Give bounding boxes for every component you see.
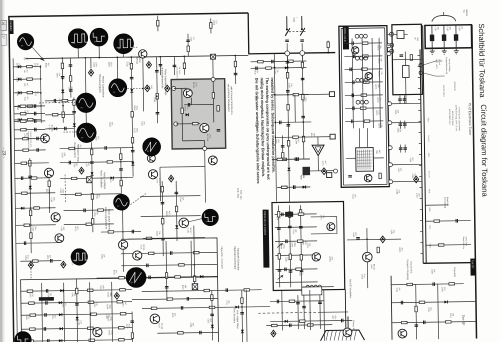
capacitor bbox=[199, 331, 201, 335]
vertical deflection module box bbox=[272, 201, 345, 290]
junction bbox=[120, 161, 122, 163]
capacitor bbox=[352, 55, 354, 59]
svg-text:30n: 30n bbox=[34, 226, 36, 229]
diode bbox=[130, 89, 133, 92]
svg-text:tuning voltage: tuning voltage bbox=[448, 59, 451, 73]
svg-text:630: 630 bbox=[23, 57, 25, 60]
svg-text:V231: V231 bbox=[195, 82, 197, 86]
junction bbox=[30, 224, 32, 226]
capacitor bbox=[400, 54, 404, 56]
capacitor bbox=[131, 149, 135, 151]
resistor bbox=[165, 273, 167, 279]
svg-text:27: 27 bbox=[1, 35, 5, 39]
resistor bbox=[296, 268, 302, 270]
wire bbox=[405, 78, 407, 104]
wire bbox=[275, 254, 317, 257]
wire bbox=[287, 56, 289, 202]
wire bbox=[101, 230, 141, 233]
junction bbox=[301, 28, 303, 30]
wire bbox=[122, 54, 124, 57]
svg-text:+20V: +20V bbox=[331, 315, 333, 320]
junction bbox=[274, 94, 276, 96]
wire bbox=[286, 56, 288, 69]
wire bbox=[39, 65, 42, 123]
resistor bbox=[407, 283, 413, 285]
resistor R116 bbox=[27, 118, 33, 120]
svg-text:Getastete Regelung: Getastete Regelung bbox=[406, 260, 409, 281]
resistor bbox=[244, 289, 250, 291]
svg-text:2k2: 2k2 bbox=[64, 303, 66, 306]
svg-text:C103: C103 bbox=[458, 26, 460, 31]
svg-text:1030: 1030 bbox=[23, 97, 25, 101]
svg-text:2p2: 2p2 bbox=[460, 26, 462, 29]
svg-text:auf Abstimmspg. UHF 12 mal: auf Abstimmspg. UHF 12 mal bbox=[455, 105, 458, 132]
junction bbox=[62, 105, 64, 107]
resistor bbox=[29, 302, 35, 304]
wire bbox=[319, 295, 322, 329]
wire bbox=[15, 177, 49, 180]
terminal box B bbox=[330, 134, 335, 139]
resistor bbox=[179, 264, 185, 266]
wire bbox=[64, 223, 114, 226]
resistor bbox=[258, 60, 264, 62]
svg-text:+25V: +25V bbox=[334, 315, 336, 320]
diode bbox=[60, 327, 63, 330]
wire bbox=[387, 33, 392, 35]
junction bbox=[274, 122, 276, 124]
svg-text:760: 760 bbox=[23, 70, 25, 73]
IF module IC block bbox=[356, 148, 374, 172]
wire bbox=[415, 284, 418, 339]
resistor bbox=[287, 104, 289, 110]
svg-text:10k: 10k bbox=[155, 97, 157, 100]
resistor bbox=[130, 63, 132, 69]
transistor V204 bbox=[44, 168, 53, 177]
transistor V208 bbox=[179, 218, 189, 228]
resistor bbox=[299, 210, 301, 216]
wire bbox=[98, 46, 100, 57]
capacitor bbox=[284, 268, 286, 272]
capacitor bbox=[289, 323, 291, 327]
wire bbox=[63, 283, 66, 342]
capacitor bbox=[225, 288, 227, 292]
svg-text:2n2: 2n2 bbox=[192, 37, 194, 40]
resistor bbox=[282, 153, 284, 159]
svg-text:R209: R209 bbox=[212, 20, 214, 25]
svg-text:10k: 10k bbox=[158, 231, 160, 234]
svg-text:GND: GND bbox=[428, 207, 430, 212]
wire bbox=[77, 48, 79, 57]
capacitor bbox=[432, 282, 434, 286]
wire bbox=[14, 105, 41, 107]
IF module box outer bbox=[339, 26, 389, 188]
svg-text:Sägezahn-Generator: Sägezahn-Generator bbox=[233, 246, 236, 270]
resistor bbox=[362, 42, 368, 44]
capacitor bbox=[301, 115, 305, 117]
junction bbox=[366, 238, 368, 240]
resistor bbox=[297, 240, 303, 242]
resistor R89 bbox=[27, 91, 33, 93]
junction bbox=[166, 276, 168, 278]
svg-text:100n: 100n bbox=[48, 189, 50, 193]
oscillogram W3 bbox=[90, 28, 108, 46]
capacitor bbox=[351, 42, 353, 46]
svg-text:3p9: 3p9 bbox=[448, 26, 450, 29]
junction bbox=[40, 92, 42, 94]
terminal box 3 bbox=[327, 173, 332, 178]
resistor bbox=[434, 220, 440, 222]
capacitor bbox=[276, 300, 278, 304]
wire bbox=[204, 151, 207, 203]
svg-text:100n: 100n bbox=[135, 106, 137, 110]
svg-text:5k6: 5k6 bbox=[398, 288, 400, 291]
capacitor bbox=[47, 339, 49, 342]
resistor bbox=[71, 177, 77, 179]
resistor bbox=[175, 206, 177, 212]
connector node bbox=[388, 121, 392, 125]
junction bbox=[99, 57, 101, 59]
connector node bbox=[387, 52, 391, 56]
wire bbox=[156, 57, 159, 123]
resistor bbox=[48, 181, 50, 187]
transistor V302 bbox=[365, 72, 372, 79]
diode bbox=[91, 172, 94, 175]
wire bbox=[41, 283, 44, 342]
wire bbox=[301, 56, 303, 69]
wire bbox=[14, 112, 45, 114]
svg-text:22k: 22k bbox=[70, 86, 72, 89]
svg-text:Vert. output stage: Vert. output stage bbox=[236, 310, 239, 329]
resistor bbox=[162, 218, 164, 224]
resistor bbox=[69, 76, 71, 82]
resistor bbox=[410, 55, 412, 61]
capacitor bbox=[293, 185, 295, 189]
switch S1 blade bbox=[285, 28, 290, 36]
connector node bbox=[333, 169, 337, 173]
transistor V216 bbox=[147, 154, 155, 162]
wire bbox=[13, 65, 40, 67]
resistor bbox=[131, 137, 133, 143]
boxed connector on bus bbox=[210, 54, 215, 59]
junction bbox=[91, 161, 93, 163]
wire bbox=[14, 91, 41, 93]
capacitor bbox=[352, 81, 354, 85]
svg-text:Sägezahn - Generator: Sägezahn - Generator bbox=[220, 246, 223, 269]
wire bbox=[426, 220, 471, 223]
svg-text:3p9: 3p9 bbox=[436, 27, 438, 30]
svg-text:- 23 -: - 23 - bbox=[2, 147, 7, 158]
resistor bbox=[131, 111, 133, 117]
wire bbox=[234, 56, 236, 84]
resistor bbox=[362, 68, 368, 70]
wire bbox=[352, 38, 353, 128]
junction bbox=[275, 137, 277, 139]
capacitor bbox=[348, 175, 352, 177]
diode bbox=[285, 66, 288, 69]
wire bbox=[302, 286, 334, 288]
wire bbox=[21, 328, 132, 330]
svg-text:ZF out: ZF out bbox=[438, 59, 441, 65]
B2 inner component bbox=[397, 31, 404, 39]
capacitor bbox=[69, 89, 73, 91]
svg-text:Ton 5,5: Ton 5,5 bbox=[427, 135, 429, 142]
svg-text:Sawtooth Generator: Sawtooth Generator bbox=[236, 248, 239, 271]
capacitor bbox=[155, 69, 159, 71]
wire bbox=[132, 298, 218, 299]
junction bbox=[156, 95, 158, 97]
svg-text:R222: R222 bbox=[300, 175, 302, 179]
junction bbox=[286, 28, 288, 30]
resistor bbox=[98, 209, 104, 211]
diode bbox=[110, 176, 113, 179]
dashed sync line bbox=[39, 101, 75, 104]
switch S2 blade bbox=[300, 28, 305, 36]
wire bbox=[76, 278, 79, 342]
connector node bbox=[419, 71, 422, 74]
capacitor bbox=[186, 297, 188, 301]
resistor bbox=[438, 244, 444, 246]
svg-text:V 237: V 237 bbox=[156, 178, 158, 183]
resistor bbox=[361, 94, 367, 96]
capacitor bbox=[169, 251, 171, 255]
transistor V233 bbox=[208, 156, 217, 165]
resistor bbox=[363, 55, 369, 57]
oscillogram W7 bbox=[76, 123, 96, 143]
cluster above flyback bbox=[302, 287, 322, 295]
svg-text:B216: B216 bbox=[310, 133, 312, 137]
capacitor bbox=[68, 161, 70, 165]
capacitor bbox=[296, 157, 298, 161]
capacitor bbox=[33, 112, 35, 116]
diode D262 bbox=[271, 330, 276, 337]
connector node bbox=[389, 32, 393, 36]
wire bbox=[276, 93, 334, 96]
wire bbox=[64, 209, 114, 212]
svg-text:mit tuning stage: mit tuning stage bbox=[451, 111, 454, 127]
svg-text:mit tuning volt. and channel: mit tuning volt. and channel bbox=[458, 107, 461, 132]
svg-text:Keyed AGC: Keyed AGC bbox=[409, 261, 412, 273]
svg-text:100n: 100n bbox=[399, 128, 401, 132]
tuner module box bbox=[425, 25, 472, 49]
dark component in module bbox=[285, 212, 293, 217]
resistor bbox=[119, 339, 125, 341]
wire bbox=[400, 145, 402, 153]
capacitor bbox=[302, 305, 306, 307]
thick bus top middle bbox=[248, 53, 335, 54]
resistor bbox=[29, 160, 31, 166]
transistor V203 bbox=[41, 134, 50, 143]
top right connector box B2 bbox=[392, 24, 423, 94]
wire bbox=[345, 94, 383, 97]
svg-text:sp. tuner: sp. tuner bbox=[178, 67, 181, 75]
junction bbox=[142, 88, 144, 90]
capacitor bbox=[180, 306, 182, 310]
svg-text:R235: R235 bbox=[184, 106, 186, 111]
svg-text:V 238: V 238 bbox=[186, 228, 188, 233]
capacitor bbox=[403, 147, 407, 149]
svg-text:22k: 22k bbox=[227, 300, 229, 303]
wire bbox=[392, 322, 476, 323]
wire bbox=[121, 264, 217, 265]
svg-text:BF234: BF234 bbox=[135, 58, 137, 65]
svg-text:100n: 100n bbox=[95, 62, 97, 66]
wire bbox=[14, 128, 45, 130]
svg-text:Abgl: Abgl bbox=[416, 37, 419, 41]
resistor bbox=[401, 321, 407, 323]
connector node bbox=[388, 163, 392, 167]
capacitor bbox=[130, 320, 134, 322]
wire bbox=[61, 58, 64, 122]
capacitor C232 bbox=[217, 129, 221, 131]
inner sub-box bbox=[121, 238, 219, 342]
capacitor bbox=[61, 75, 65, 77]
wire bbox=[21, 314, 132, 316]
resistor R63 bbox=[27, 65, 33, 67]
connector bus bottom rail bbox=[423, 262, 475, 265]
junction bbox=[274, 67, 276, 69]
diode D76 bbox=[18, 78, 21, 81]
wire bbox=[15, 162, 49, 165]
diode D209 bbox=[28, 262, 33, 269]
wire bbox=[30, 158, 31, 253]
gray box internal wiring bbox=[176, 123, 200, 125]
wire bbox=[250, 67, 306, 70]
transistor V251 bbox=[327, 223, 335, 231]
capacitor bbox=[20, 176, 22, 180]
resistor bbox=[131, 333, 133, 339]
wire bbox=[317, 156, 319, 171]
svg-text:100n: 100n bbox=[62, 189, 64, 193]
IF coil symbols bbox=[355, 34, 359, 38]
capacitor bbox=[45, 289, 47, 293]
scanner page edge strip bbox=[0, 0, 3, 342]
diode bbox=[60, 289, 63, 292]
svg-text:V 738: V 738 bbox=[23, 133, 25, 138]
capacitor bbox=[53, 99, 55, 103]
svg-text:10k: 10k bbox=[58, 73, 60, 76]
wire bbox=[279, 205, 280, 287]
svg-text:and decoder: and decoder bbox=[442, 85, 445, 97]
resistor R231 bbox=[181, 108, 183, 114]
resistor bbox=[62, 112, 64, 118]
diode bbox=[287, 168, 290, 171]
wire bbox=[392, 121, 421, 123]
diode D201 bbox=[146, 61, 151, 68]
IF module name plate bbox=[343, 26, 349, 49]
diode bbox=[61, 90, 64, 93]
resistor bbox=[62, 99, 68, 101]
svg-text:Impulsabtrennstufe: Impulsabtrennstufe bbox=[160, 67, 163, 89]
transistor V280 bbox=[398, 329, 407, 338]
dashed W9 link bbox=[130, 193, 146, 204]
triangle transducer bbox=[312, 145, 324, 156]
resistor bbox=[34, 207, 40, 209]
connector node bbox=[419, 64, 422, 67]
wire bbox=[366, 128, 368, 147]
svg-text:26: 26 bbox=[1, 22, 5, 26]
junction bbox=[29, 177, 31, 179]
wire bbox=[274, 53, 276, 201]
diode bbox=[211, 325, 214, 328]
resistor bbox=[146, 237, 152, 239]
diode bbox=[59, 339, 62, 342]
connector node bbox=[300, 51, 305, 56]
resistor bbox=[209, 306, 215, 308]
wire bbox=[121, 252, 217, 253]
wire bbox=[303, 295, 306, 329]
capacitor bbox=[75, 303, 79, 305]
junction bbox=[274, 94, 276, 96]
junction bbox=[92, 193, 94, 195]
capacitor bbox=[299, 226, 303, 228]
capacitor bbox=[288, 225, 292, 227]
wire bbox=[45, 113, 74, 115]
wire bbox=[404, 145, 406, 153]
wire bbox=[404, 52, 406, 66]
resistor bbox=[86, 223, 92, 225]
transistor V214 bbox=[133, 251, 142, 260]
wire bbox=[391, 302, 475, 303]
wire bbox=[270, 300, 324, 303]
resistor bbox=[449, 283, 455, 285]
svg-text:BEREI: BEREI bbox=[465, 10, 467, 17]
resistor bbox=[415, 306, 417, 312]
capacitor bbox=[352, 107, 354, 111]
svg-text:BC158: BC158 bbox=[160, 323, 162, 329]
wire bbox=[21, 302, 132, 304]
bottom right box bbox=[390, 276, 393, 340]
capacitor bbox=[210, 313, 214, 315]
svg-text:Ton-ZF: Ton-ZF bbox=[471, 260, 475, 269]
capacitor bbox=[161, 201, 165, 203]
junction bbox=[91, 177, 93, 179]
wire bbox=[344, 55, 382, 58]
wire bbox=[345, 81, 383, 84]
svg-text:890: 890 bbox=[23, 83, 25, 86]
wire bbox=[362, 38, 363, 128]
switch nodes on bus bbox=[286, 43, 288, 59]
wire bbox=[183, 56, 185, 74]
switch S1 wire bbox=[286, 16, 288, 28]
tuner ground symbols bbox=[431, 48, 433, 51]
resistor R103 bbox=[27, 105, 33, 107]
resistor bbox=[161, 186, 163, 192]
svg-text:mit Kanal: mit Kanal bbox=[453, 82, 456, 91]
wire bbox=[275, 213, 317, 216]
svg-text:R310: R310 bbox=[61, 303, 63, 307]
connector node bbox=[211, 77, 215, 81]
wire bbox=[15, 192, 55, 195]
resistor bbox=[288, 60, 294, 62]
capacitor C256 bbox=[356, 237, 360, 239]
capacitor bbox=[285, 240, 287, 244]
resistor bbox=[289, 254, 291, 260]
junction bbox=[62, 78, 64, 80]
wire bbox=[277, 186, 310, 188]
inner frame label box bbox=[9, 20, 14, 34]
wire bbox=[20, 260, 61, 263]
resistor bbox=[379, 173, 381, 179]
wire bbox=[22, 340, 133, 342]
resistor bbox=[278, 254, 280, 260]
svg-text:TU: TU bbox=[462, 10, 465, 14]
module sub loop bbox=[311, 217, 337, 234]
resistor bbox=[90, 149, 92, 155]
capacitor bbox=[104, 146, 106, 150]
wire bbox=[16, 242, 59, 245]
oscillogram W10 bbox=[202, 209, 219, 226]
wire bbox=[14, 120, 45, 122]
